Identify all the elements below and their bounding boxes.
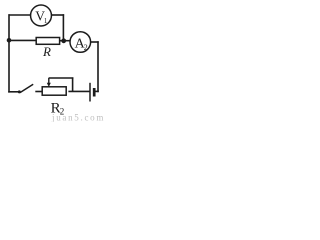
wire rheostat top bar xyxy=(49,77,74,79)
wire right corner to battery xyxy=(94,90,99,92)
voltmeter V1 xyxy=(31,5,52,26)
resistor R xyxy=(36,38,59,45)
wire right vertical xyxy=(97,41,99,92)
node junction dot right (resistor/ammeter/voltmeter) xyxy=(61,38,66,43)
wire rheostat slider down segment xyxy=(72,77,74,92)
label R2 (rheostat) xyxy=(51,101,65,117)
battery positive long plate xyxy=(89,83,91,102)
battery negative short plate xyxy=(93,88,96,97)
switch blade xyxy=(20,84,33,92)
wire from left node to resistor R xyxy=(9,39,37,41)
ammeter A2 xyxy=(70,32,91,53)
svg-text:2: 2 xyxy=(84,43,88,52)
wire battery to rheostat slider junction xyxy=(68,90,90,92)
wire vertical right of V1 down to node xyxy=(62,14,64,41)
wire resistor to ammeter through node xyxy=(59,40,69,42)
svg-text:R: R xyxy=(42,44,51,59)
rheostat R2 body xyxy=(42,87,66,95)
wire switch to rheostat xyxy=(35,91,42,93)
switch S lead xyxy=(8,91,19,93)
wire left vertical xyxy=(8,14,10,92)
svg-text:juan5.com: juan5.com xyxy=(51,112,105,122)
wire top-left horizontal xyxy=(9,14,31,16)
svg-text:1: 1 xyxy=(44,17,48,25)
node junction dot left xyxy=(7,38,12,43)
rheostat slider arrow xyxy=(47,78,51,87)
wire from V1 to top-right corner xyxy=(52,14,65,16)
switch contact dot xyxy=(18,90,21,93)
wire ammeter to right corner xyxy=(91,41,99,43)
